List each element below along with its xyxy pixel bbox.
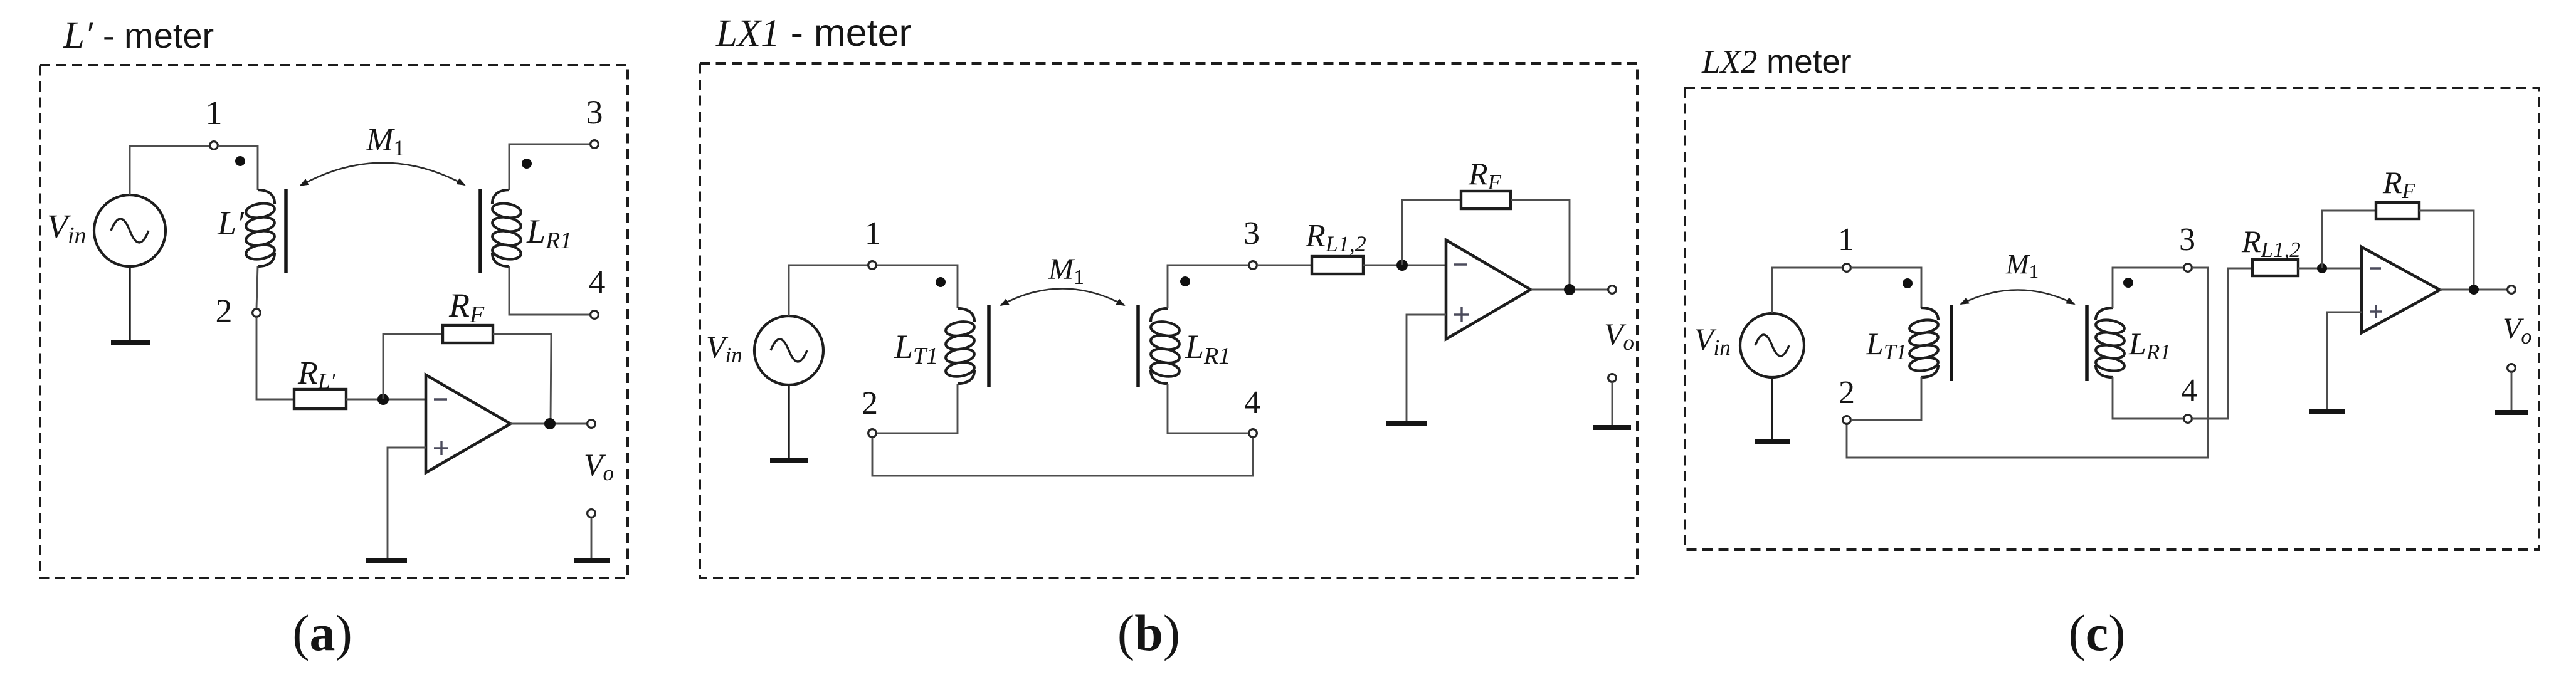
- core bar left (a): [284, 189, 288, 273]
- ground reference (c): [2495, 410, 2528, 415]
- resistor RF (b): [1461, 191, 1511, 209]
- polarity dot LR1 (a): [522, 159, 532, 169]
- wire LR1 bottom to node 4 (b): [1168, 384, 1248, 433]
- svg-text:1: 1: [865, 216, 881, 251]
- ground Vin (c): [1755, 439, 1790, 444]
- wire RL12 to op-amp inverting input (c): [2298, 268, 2362, 270]
- svg-text:LT1: LT1: [894, 328, 938, 369]
- ground op-amp (b): [1386, 421, 1427, 426]
- svg-text:3: 3: [1243, 216, 1260, 251]
- svg-text:Vin: Vin: [1694, 322, 1731, 360]
- wire LR1 top to node 3 (c): [2113, 268, 2183, 308]
- wire node 1 to L' top (a): [218, 146, 258, 190]
- svg-text:L′: L′: [217, 204, 245, 242]
- inductor LT1 winding (c): [1921, 308, 1938, 320]
- wire LT1 bottom to node 2 (b): [877, 384, 958, 433]
- svg-text:LT1: LT1: [1866, 326, 1907, 364]
- svg-text:2: 2: [1839, 375, 1855, 411]
- svg-text:M1: M1: [366, 122, 404, 160]
- node 4 terminal (a): [591, 311, 599, 319]
- wire RF right down to output (a): [493, 334, 551, 424]
- resistor RL1,2 (b): [1312, 256, 1363, 274]
- resistor RL' (a): [294, 389, 346, 409]
- node 3 terminal (c): [2184, 264, 2192, 272]
- svg-text:RL′: RL′: [297, 355, 336, 394]
- node 4 terminal (b): [1249, 429, 1257, 438]
- svg-text:2: 2: [862, 386, 878, 421]
- inductor LT1 winding (b): [958, 308, 974, 322]
- core bar left (c): [1950, 305, 1953, 381]
- polarity dot LR1 (b): [1180, 276, 1190, 286]
- node 2 terminal (a): [253, 309, 261, 317]
- wire node 4 up to RL12 (c): [2192, 268, 2252, 419]
- svg-text:3: 3: [2179, 222, 2195, 258]
- source Vin (a): [94, 195, 166, 266]
- junction dot output (a): [544, 418, 556, 429]
- node 3 terminal (a): [591, 140, 599, 149]
- wire LR1 bottom to node 4 (a): [509, 266, 590, 315]
- core bar right (c): [2085, 305, 2089, 381]
- inductor L' winding (a): [258, 190, 275, 204]
- op-amp U1 (c): [2362, 247, 2440, 333]
- wire RF right down to output (c): [2419, 211, 2474, 290]
- reference terminal below Vo (b): [1608, 374, 1617, 382]
- node 2 terminal (b): [868, 429, 877, 438]
- core bar right (b): [1136, 305, 1140, 387]
- svg-text:LR1: LR1: [1185, 328, 1230, 369]
- svg-text:Vo: Vo: [2503, 312, 2531, 349]
- wire node 2 to RL' (a): [256, 317, 294, 399]
- wire feedback left up to RF (a): [383, 334, 443, 399]
- svg-text:RL1,2: RL1,2: [2241, 224, 2301, 262]
- wire non-inverting input to ground (b): [1407, 315, 1446, 422]
- node 1 terminal (a): [210, 142, 218, 150]
- ground op-amp (a): [366, 558, 407, 563]
- wire LR1 top to node 3 (b): [1168, 265, 1248, 308]
- core bar left (b): [987, 305, 991, 387]
- junction dot inverting input (c): [2317, 263, 2327, 273]
- wire reference terminal to ground (b): [1612, 382, 1613, 426]
- inductor LR1 winding (c): [2096, 308, 2113, 320]
- svg-text:RF: RF: [1468, 156, 1502, 194]
- circuit (b) dashed enclosure "LX1 meter": [700, 63, 1637, 578]
- terminal Vo (b): [1608, 286, 1617, 294]
- svg-text:Vo: Vo: [584, 447, 614, 485]
- wire non-inverting input to ground (a): [388, 448, 426, 559]
- wire feedback left up to RF (c): [2322, 211, 2376, 268]
- polarity dot LR1 (c): [2123, 278, 2133, 288]
- svg-text:(b): (b): [1117, 604, 1180, 661]
- svg-text:(a): (a): [292, 604, 352, 661]
- junction dot inverting input (b): [1396, 260, 1408, 271]
- svg-text:M1: M1: [2005, 249, 2039, 282]
- node 4 terminal (c): [2184, 415, 2192, 423]
- node 1 terminal (c): [1843, 264, 1851, 272]
- node 1 terminal (b): [868, 261, 877, 270]
- wire op-amp output to Vo terminal (a): [510, 423, 587, 425]
- svg-text:LX1 - meter: LX1 - meter: [715, 11, 912, 55]
- svg-text:2: 2: [216, 292, 233, 330]
- svg-text:1: 1: [1838, 222, 1854, 258]
- node 2 terminal (c): [1843, 416, 1851, 424]
- resistor RF (c): [2376, 202, 2419, 219]
- wire Vin bottom to ground (a): [129, 266, 130, 340]
- wire reference terminal to ground (a): [591, 518, 593, 559]
- wire Vin bottom to ground (c): [1771, 377, 1773, 440]
- mutual coupling arrow M1 (c): [1961, 290, 2074, 305]
- wire Vin bottom to ground (b): [788, 385, 789, 459]
- core bar right (a): [478, 189, 482, 273]
- polarity dot LT1 (b): [936, 277, 946, 287]
- svg-text:LR1: LR1: [526, 212, 572, 254]
- wire Vin top to node 1 (b): [789, 265, 868, 316]
- ground reference (b): [1593, 425, 1631, 430]
- svg-text:M1: M1: [1048, 253, 1084, 289]
- wire feedback left up to RF (b): [1402, 200, 1461, 265]
- svg-text:LR1: LR1: [2128, 326, 2171, 364]
- svg-text:4: 4: [589, 263, 606, 301]
- wire node 1 to LT1 top (b): [877, 265, 958, 308]
- ground Vin (a): [111, 340, 150, 345]
- inductor LR1 winding (b): [1151, 308, 1168, 322]
- wire op-amp output to Vo terminal (c): [2440, 289, 2507, 291]
- junction dot inverting input (a): [377, 394, 389, 405]
- wire Vin top to node 1 (c): [1772, 268, 1842, 313]
- junction dot output (c): [2469, 285, 2479, 295]
- svg-text:1: 1: [206, 94, 223, 132]
- wire node 3 down to bottom rail (c): [1847, 268, 2208, 458]
- wire LR1 bottom to node 4 (c): [2113, 377, 2183, 419]
- svg-text:Vin: Vin: [706, 329, 742, 367]
- wire node 1 to LT1 top (c): [1851, 268, 1921, 308]
- svg-text:Vin: Vin: [47, 207, 87, 249]
- wire node 2 to node 4 bottom loop (b): [872, 438, 1253, 476]
- svg-text:RL1,2: RL1,2: [1305, 218, 1366, 256]
- wire LR1 top to node 3 (a): [509, 144, 590, 190]
- source Vin (b): [754, 316, 823, 385]
- svg-text:RF: RF: [448, 286, 485, 328]
- svg-text:RF: RF: [2382, 165, 2416, 203]
- circuit (a) dashed enclosure "L-prime meter": [40, 65, 628, 578]
- terminal Vo (c): [2508, 286, 2516, 294]
- mutual coupling arrow M1 (b): [1001, 289, 1124, 306]
- inductor LR1 winding (a): [492, 190, 509, 204]
- svg-text:LX2 meter: LX2 meter: [1701, 43, 1852, 80]
- wire non-inverting input to ground (c): [2327, 312, 2362, 411]
- wire Vin top to node 1 (a): [130, 146, 209, 195]
- wire LT1 bottom to node 2 (c): [1851, 377, 1921, 420]
- wire op-amp output to Vo terminal (b): [1531, 289, 1608, 291]
- reference terminal below Vo (a): [588, 510, 596, 518]
- svg-text:(c): (c): [2068, 604, 2125, 661]
- node 3 terminal (b): [1249, 261, 1257, 270]
- ground op-amp (c): [2309, 409, 2345, 414]
- wire node 3 to RL12 (b): [1257, 265, 1312, 266]
- polarity dot LT1 (c): [1903, 278, 1913, 288]
- polarity dot L' (a): [235, 156, 245, 166]
- reference terminal below Vo (c): [2508, 364, 2516, 372]
- svg-text:3: 3: [586, 93, 603, 131]
- wire RL' to op-amp inverting input (a): [346, 399, 426, 401]
- svg-text:L′ - meter: L′ - meter: [63, 14, 214, 56]
- svg-text:Vo: Vo: [1604, 317, 1634, 355]
- op-amp U1 (a): [426, 375, 510, 473]
- terminal Vo (a): [588, 420, 596, 428]
- junction dot output (b): [1564, 284, 1575, 295]
- source Vin (c): [1740, 313, 1804, 377]
- wire RL12 to op-amp inverting input (b): [1363, 265, 1446, 266]
- ground reference (a): [574, 558, 610, 563]
- resistor RF (a): [443, 325, 493, 343]
- op-amp U1 (b): [1446, 240, 1531, 339]
- wire reference terminal to ground (c): [2511, 372, 2513, 411]
- circuit (c) dashed enclosure "LX2 meter": [1685, 88, 2539, 550]
- ground Vin (b): [770, 458, 808, 463]
- svg-text:4: 4: [1244, 385, 1260, 421]
- resistor RL1,2 (c): [2252, 260, 2298, 276]
- wire L' bottom to node 2 (a): [256, 266, 258, 308]
- mutual coupling arrow M1 (a): [300, 163, 465, 186]
- svg-text:4: 4: [2181, 373, 2197, 409]
- wire RF right down to output (b): [1511, 200, 1570, 290]
